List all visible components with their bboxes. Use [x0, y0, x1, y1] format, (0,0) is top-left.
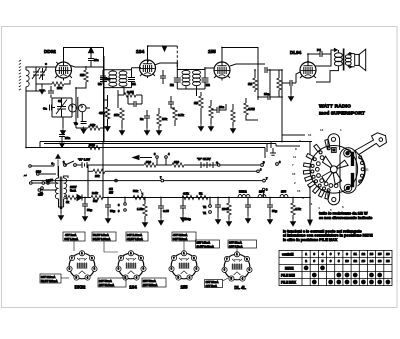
power transformer T3 primary [55, 178, 58, 199]
svg-text:6: 6 [330, 252, 332, 256]
box label V1 left [40, 274, 61, 283]
capacitor C22 [245, 205, 251, 207]
svg-text:5W: 5W [93, 199, 98, 203]
lever arm [355, 133, 387, 155]
IFT1 wires left [104, 48, 132, 88]
contact i [124, 203, 127, 206]
svg-text:86V 13mA: 86V 13mA [229, 241, 242, 245]
main rail wire [103, 186, 310, 198]
svg-text:18: 18 [386, 259, 390, 263]
svg-text:M2: M2 [170, 83, 174, 87]
lug hole 2 [313, 158, 316, 161]
IFT2 wires left [177, 66, 205, 89]
svg-text:1M: 1M [248, 82, 253, 86]
table dots PILE MAX [312, 280, 389, 284]
rotor blade lower [333, 172, 341, 184]
wire contacts [209, 198, 211, 205]
contact lug 2 [306, 154, 314, 160]
resistor R11 4.7M [244, 103, 248, 115]
ground C18 [105, 216, 110, 223]
stator crescent [358, 154, 366, 187]
svg-text:10n: 10n [94, 58, 99, 62]
capacitor C12 [268, 94, 270, 100]
svg-text:5: 5 [322, 259, 324, 263]
wire R13b [270, 70, 282, 97]
switch S1 contact a [64, 164, 67, 167]
rectifier D1 wires [64, 165, 91, 201]
V2 pin stubs [140, 74, 155, 79]
svg-text:1n: 1n [140, 117, 144, 121]
contact lug 10 [325, 139, 330, 146]
svg-text:155: 155 [208, 49, 216, 54]
filament choke 1 [238, 195, 250, 198]
resistor R2 27k [52, 82, 64, 86]
contact lug 9 [325, 192, 330, 199]
box label V3 right [196, 240, 220, 248]
svg-text:11: 11 [366, 168, 370, 172]
svg-text:1S4: 1S4 [129, 285, 137, 290]
svg-text:14: 14 [309, 202, 313, 206]
wire R2 [46, 80, 70, 84]
rotor blade mid [322, 172, 332, 183]
svg-text:si intendono con commutatore i: si intendono con commutatore in posizion… [283, 234, 373, 238]
tube base V1 [67, 251, 97, 281]
IFT2 primary coil [182, 70, 190, 85]
row wire y180 [31, 180, 262, 182]
resistor R22 300 [144, 163, 156, 167]
crescent hole 3 [361, 168, 364, 171]
wire B+ drop [103, 88, 105, 142]
detector capacitor C13 [265, 67, 267, 73]
capacitor C9 [144, 116, 150, 118]
variable capacitor C2 [56, 98, 67, 117]
svg-text:53.5V 0.5mA: 53.5V 0.5mA [93, 233, 109, 237]
svg-text:3: 3 [313, 252, 315, 256]
crescent hole 5 [359, 180, 362, 183]
wire to gnd [36, 84, 46, 87]
capacitor Ca [50, 105, 52, 111]
IFT1 primary coil [109, 71, 117, 86]
battery A cell [82, 162, 87, 168]
IFT1 secondary coil [119, 71, 127, 86]
secondary lead arrows [350, 52, 353, 68]
T2 secondary [345, 55, 351, 66]
contact lug 5 [305, 176, 313, 182]
svg-text:DL94: DL94 [290, 50, 302, 55]
lug hole 9 [327, 189, 330, 192]
filament choke 2 [258, 195, 266, 198]
wire R12 [254, 70, 256, 92]
svg-text:200: 200 [174, 160, 179, 164]
wire V4 plate [316, 50, 336, 66]
wafer bottom hole [332, 197, 336, 201]
resistor R6 [157, 114, 161, 126]
lug hole 7 [318, 184, 321, 187]
pot arrow [140, 189, 143, 195]
svg-text:P4: P4 [317, 48, 321, 52]
oscillator coil L3 [79, 104, 87, 112]
svg-text:le tensioni e le correnti post: le tensioni e le correnti poste nel rett… [283, 229, 362, 233]
rotor hub [330, 166, 337, 173]
svg-text:1.5k: 1.5k [137, 207, 143, 211]
table header numbers row1 [305, 252, 390, 256]
svg-text:10k: 10k [162, 117, 167, 121]
wire R7 [171, 96, 175, 126]
svg-text:50µ: 50µ [87, 208, 92, 212]
wire C20 [182, 198, 184, 216]
box wire V4 top [236, 248, 238, 254]
box wire V3 top [183, 241, 185, 251]
lug hole 3 [311, 164, 314, 167]
wire antenna to V1 grid [46, 67, 56, 71]
base V4 pin numbers [224, 254, 251, 280]
V1 pin stubs [55, 62, 72, 81]
box label V2 bottom [98, 278, 126, 287]
box label V2 top [92, 232, 116, 241]
resistor R18 4.7k rail [182, 195, 194, 199]
ring hole 8 [334, 184, 338, 188]
resistor R5 [120, 108, 124, 120]
wire C19 [160, 198, 162, 219]
rotary switch wafer outline [310, 146, 358, 194]
svg-text:200µ: 200µ [184, 217, 191, 221]
mains switch contact a [30, 182, 33, 185]
svg-text:2.2k: 2.2k [92, 191, 98, 195]
wire R21 [292, 198, 294, 220]
stator bar lower [351, 173, 353, 186]
resistor R24 [105, 107, 109, 119]
wire C8 [128, 95, 142, 104]
svg-text:2: 2 [305, 259, 307, 263]
ground C14 [288, 94, 293, 101]
capacitor C4 screen [88, 59, 94, 61]
svg-text:+: + [216, 161, 218, 165]
svg-text:155: 155 [181, 285, 189, 290]
svg-text:10n: 10n [219, 105, 224, 109]
ring hole 3 [315, 167, 319, 171]
crescent hole 4 [361, 174, 364, 177]
IFT2 secondary cap [202, 78, 209, 82]
svg-text:10n: 10n [264, 92, 269, 96]
contact m [257, 170, 260, 173]
box label V4 bottom [205, 280, 223, 288]
ring hole 6 [324, 182, 328, 186]
ring hole 4 [317, 174, 321, 178]
wire detector node [269, 70, 271, 97]
contact e [209, 205, 212, 208]
contact c [115, 179, 118, 182]
svg-text:1000: 1000 [222, 207, 229, 211]
rotor nut [331, 148, 336, 153]
ring hole 7 [329, 184, 333, 188]
resistor R12 [253, 78, 257, 90]
stator ring top center [346, 152, 349, 155]
ground R24 [105, 124, 110, 131]
capacitor C8 [134, 101, 136, 107]
wire C15 top [308, 54, 331, 62]
lug hole 5 [312, 175, 315, 178]
svg-text:15: 15 [297, 189, 301, 193]
resistor R20 [227, 203, 231, 215]
svg-text:"A" 1.5V: "A" 1.5V [78, 158, 90, 162]
B+ arrow [89, 48, 94, 53]
wafer top tab [328, 134, 340, 150]
filament choke 3 [280, 195, 288, 198]
lug hole 6 [315, 180, 318, 183]
contact f [209, 211, 212, 214]
mains tap 3 wire [41, 189, 57, 191]
wire R3 [76, 56, 104, 142]
ground R20 [226, 219, 231, 226]
wire V2 plate [155, 63, 178, 66]
svg-text:86V 5mA: 86V 5mA [206, 284, 217, 288]
svg-text:86V 13mA: 86V 13mA [206, 280, 219, 284]
svg-text:DD92: DD92 [44, 49, 56, 54]
box label V3 bottom [142, 278, 166, 287]
wire R9 [210, 100, 212, 124]
ground C22 [245, 216, 250, 223]
wires oscillator coils [78, 97, 90, 121]
ground T3 [58, 213, 63, 220]
mains switch wire [32, 182, 56, 184]
T2 primary leads [316, 50, 338, 82]
base V3 pin numbers [171, 253, 198, 279]
wire C4 down [90, 53, 92, 67]
svg-text:50µ: 50µ [272, 209, 277, 213]
resistor R1 screen [84, 70, 88, 82]
svg-text:25V 50mA: 25V 50mA [143, 279, 156, 283]
IFT2 wires right [197, 68, 215, 96]
contact h stub [165, 158, 167, 165]
svg-text:2.7k: 2.7k [178, 113, 184, 117]
IFT1 secondary cap [128, 78, 135, 82]
table header numbers row2 [305, 259, 390, 263]
wire R24 [104, 100, 108, 124]
wire antenna coil top [26, 67, 46, 91]
wire R26 [88, 170, 93, 172]
stator ring bottom [344, 184, 352, 192]
wire C1 [26, 67, 46, 91]
contacts table grid [279, 250, 392, 285]
ferrite antenna dashed rod [19, 60, 21, 90]
svg-text:22k: 22k [90, 123, 95, 127]
T3 secondary [64, 178, 67, 199]
box label V3 top2 [172, 232, 196, 241]
box label V4 top [228, 240, 257, 248]
svg-text:mod SUPERSPORT: mod SUPERSPORT [319, 111, 365, 117]
capacitor C16 bus [59, 135, 65, 137]
wire T3 secondary [59, 166, 69, 213]
wire C14 [282, 70, 296, 142]
svg-text:se non diversamente indicate: se non diversamente indicate [319, 216, 372, 220]
capacitor C20 200u [180, 206, 186, 208]
wire contact n [263, 191, 265, 198]
svg-text:14: 14 [370, 259, 374, 263]
svg-text:300: 300 [146, 160, 151, 164]
crescent hole 2 [361, 162, 364, 165]
svg-text:"B" 67.5V: "B" 67.5V [197, 157, 211, 161]
ground C17 [82, 214, 87, 221]
svg-text:25n: 25n [65, 136, 70, 140]
svg-text:PILE MIN: PILE MIN [281, 273, 296, 277]
tube V2 1S4 [140, 60, 156, 76]
IFT1 primary cap [100, 78, 107, 82]
svg-text:Ca: Ca [43, 107, 47, 111]
wire R1 [76, 66, 86, 88]
ground R5 [119, 128, 124, 135]
wire C17 [84, 198, 86, 215]
svg-text:19.5V 0.03mA: 19.5V 0.03mA [197, 244, 214, 248]
rotor window upper [337, 160, 348, 168]
contact battery plus [217, 164, 220, 167]
wire R5 [121, 120, 123, 128]
svg-text:M2: M2 [206, 83, 210, 87]
svg-text:10k: 10k [95, 174, 100, 178]
bus wire upper [40, 142, 312, 149]
contact lug 3 [303, 163, 310, 167]
row wire y171 [105, 170, 257, 172]
tee ground bus [270, 148, 276, 155]
resistor R13b [277, 78, 281, 90]
capacitor C15 [320, 51, 322, 57]
ground R17 [142, 220, 147, 227]
capacitor C21 [215, 205, 221, 207]
svg-text:34.5V 0.08mA: 34.5V 0.08mA [93, 237, 110, 241]
svg-text:24V 50mA: 24V 50mA [99, 279, 112, 283]
resistor R3 22k [88, 126, 100, 130]
ground C9 [144, 128, 149, 135]
svg-text:contatti: contatti [282, 252, 294, 256]
tube V3 1S5 [214, 62, 230, 78]
ring hole 5 [320, 179, 324, 183]
resistor R23 200 [172, 163, 184, 167]
capacitor C7 [160, 76, 166, 78]
svg-text:13: 13 [370, 252, 374, 256]
svg-text:64V 1.36mA: 64V 1.36mA [127, 233, 142, 237]
speaker [355, 49, 366, 70]
capacitor C19 [158, 206, 164, 208]
resistor R7 [173, 108, 177, 120]
svg-text:6: 6 [330, 259, 332, 263]
svg-text:16: 16 [378, 259, 382, 263]
svg-text:50µ: 50µ [110, 209, 115, 213]
resistor R25 1k [64, 195, 76, 199]
box wire V1 left [61, 277, 69, 279]
wire C7 [162, 70, 164, 84]
ground C23 [267, 217, 272, 224]
resistor R26 10k [93, 169, 105, 173]
contact n [262, 188, 265, 191]
contact lug 6 [308, 181, 316, 188]
wire V2 top rail [148, 46, 178, 60]
svg-text:11: 11 [293, 155, 297, 159]
tube V4 DL94 [300, 62, 316, 78]
svg-text:16: 16 [292, 172, 296, 176]
contact lug 4 [303, 170, 310, 174]
grid capacitor Cg [48, 91, 54, 93]
svg-text:4.7M: 4.7M [248, 107, 255, 111]
stator capsule plate [340, 148, 356, 193]
capacitor C10 [168, 102, 174, 104]
svg-text:1M: 1M [194, 101, 199, 105]
wire R4 [118, 90, 142, 108]
svg-text:7: 7 [338, 252, 340, 256]
svg-text:4.7k: 4.7k [183, 192, 189, 196]
svg-text:155: 155 [281, 190, 286, 194]
capacitor C5 [100, 76, 106, 78]
rotor nut dot [333, 149, 335, 151]
wire battery A [76, 164, 260, 166]
svg-text:15: 15 [378, 252, 382, 256]
mains tap 1 wire [31, 163, 54, 166]
svg-text:13: 13 [362, 259, 366, 263]
resistor R8 [199, 96, 203, 108]
resistor R17 1.5k [143, 204, 147, 216]
tube base V2 [116, 251, 146, 281]
svg-text:1W: 1W [109, 191, 113, 195]
box label V1 top [63, 232, 85, 241]
wire Ca [52, 107, 55, 109]
svg-text:34V 1.6mA: 34V 1.6mA [65, 237, 79, 241]
resistor R4 2.2M [124, 93, 136, 97]
ground C16 [59, 141, 64, 148]
lug hole 10 [327, 147, 330, 150]
wire R8 [200, 92, 202, 124]
tube base V3 [169, 251, 199, 281]
capacitor C11 [217, 107, 219, 113]
svg-text:12: 12 [362, 252, 366, 256]
svg-text:1k: 1k [66, 200, 69, 204]
trimmer capacitor C1 [32, 68, 40, 80]
wire R24 [107, 95, 109, 124]
svg-text:1M: 1M [80, 73, 85, 77]
trimmer capacitor C1b [39, 68, 46, 80]
contact k [47, 182, 50, 185]
stator ring top [344, 149, 352, 157]
arrow node [56, 154, 61, 176]
feed arrow left [133, 156, 152, 160]
wire R17 [144, 198, 146, 221]
box wire V4 bottom [223, 278, 228, 281]
wire R11 [246, 98, 258, 120]
svg-text:52.5V 620mA: 52.5V 620mA [41, 279, 58, 283]
resistor R9 [209, 106, 213, 118]
wire C18 [107, 198, 109, 217]
IFT2 primary cap [174, 78, 181, 82]
svg-text:16: 16 [386, 252, 390, 256]
svg-text:45V 2mA: 45V 2mA [65, 233, 76, 237]
svg-text:86V 0.7mA: 86V 0.7mA [229, 244, 243, 248]
lug hole 1 [319, 151, 322, 154]
svg-text:22M: 22M [89, 143, 95, 147]
tube V1 DD92 [56, 62, 72, 78]
dashed AVC line [176, 46, 178, 67]
mains tap 2 wire [39, 173, 56, 175]
switch S1 blade [65, 161, 74, 165]
capacitor C6 [81, 122, 87, 124]
contact 7 [263, 179, 266, 182]
wire C11 [211, 104, 226, 110]
plate lead arrow [334, 48, 337, 52]
switch S1 contact b [74, 164, 77, 167]
wire C12 [258, 96, 282, 98]
oscillator section wires [51, 86, 72, 128]
table dots PILE MIN [312, 273, 381, 277]
svg-text:DL 4L: DL 4L [234, 285, 246, 290]
svg-text:WATT RADIO: WATT RADIO [319, 104, 351, 110]
rotor blade upper [323, 156, 333, 167]
svg-text:34V 520mA: 34V 520mA [173, 237, 187, 241]
